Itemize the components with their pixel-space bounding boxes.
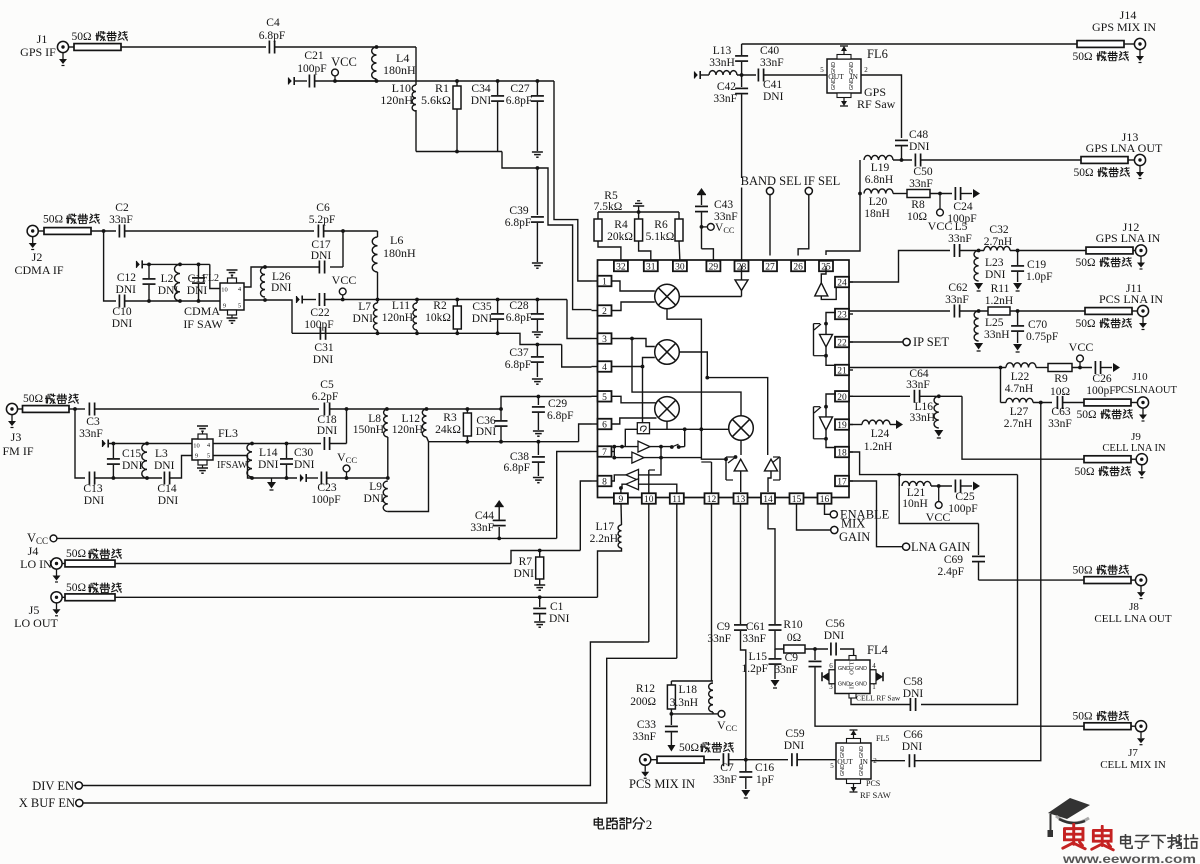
svg-text:FL3: FL3: [218, 426, 238, 440]
capacitor C41 DNI: [758, 69, 783, 104]
wire C14 to FL3 pin9: [170, 456, 192, 479]
capacitor C6 5.2pF: [309, 202, 336, 238]
logo url: [1062, 852, 1196, 864]
svg-text:FM IF: FM IF: [2, 444, 33, 458]
svg-text:C21: C21: [304, 50, 323, 62]
saw filter FL6: [827, 46, 888, 106]
capacitor C56 DNI: [824, 618, 845, 656]
CDMA bottom return rail: [292, 331, 562, 346]
svg-text:J2: J2: [32, 250, 43, 264]
svg-text:6: 6: [829, 662, 833, 670]
microstrip 50ohm J9: [1074, 456, 1131, 478]
svg-text:C5: C5: [320, 379, 334, 391]
svg-text:L23: L23: [985, 257, 1004, 269]
node J2 split: [91, 229, 116, 233]
svg-text:C33: C33: [637, 719, 656, 731]
node C16: [729, 758, 788, 762]
capacitor C13 DNI: [83, 472, 104, 508]
svg-text:IN: IN: [860, 757, 868, 766]
wire R7 rail to pin8: [580, 481, 591, 551]
svg-text:24kΩ: 24kΩ: [435, 424, 461, 436]
svg-text:C44: C44: [475, 510, 494, 522]
svg-text:C16: C16: [755, 762, 774, 774]
resistor R11 1.2nH: [985, 283, 1013, 315]
wire L17 to LO OUT rail: [598, 548, 622, 597]
microstrip 50ohm J1: [71, 31, 127, 50]
wire pin7 node: [611, 445, 638, 460]
svg-text:DNI: DNI: [122, 460, 143, 472]
svg-text:33nF: 33nF: [632, 731, 656, 743]
wire pin2 to M1: [611, 302, 655, 311]
svg-text:33nF: 33nF: [948, 233, 972, 245]
wire B2 out: [614, 447, 701, 460]
pin 27: [763, 261, 777, 273]
VCC tap C22: [325, 273, 378, 301]
svg-text:2.7nH: 2.7nH: [984, 236, 1012, 248]
inductor L6 180nH: [372, 231, 416, 300]
svg-text:6.8pF: 6.8pF: [506, 312, 533, 324]
svg-text:DNI: DNI: [514, 568, 535, 580]
pin 7: [592, 446, 612, 458]
node J3 split: [69, 407, 85, 411]
svg-text:C6: C6: [316, 202, 330, 214]
svg-text:2.2nH: 2.2nH: [590, 533, 618, 545]
capacitor C37 6.8pF: [505, 345, 544, 378]
microstrip 50ohm J11: [1075, 308, 1132, 330]
svg-text:120nH: 120nH: [380, 93, 413, 107]
svg-text:LNA GAIN: LNA GAIN: [911, 540, 970, 554]
capacitor C21 100pF: [297, 50, 326, 88]
svg-text:DNI: DNI: [317, 425, 338, 437]
svg-text:C13: C13: [83, 483, 102, 495]
svg-text:31: 31: [646, 263, 656, 273]
inductor L18 3.3nH: [670, 683, 713, 712]
wire corner to bias rail: [415, 47, 417, 81]
svg-text:C7: C7: [720, 762, 734, 774]
wire pin5 to M3: [611, 396, 656, 403]
svg-text:GPS IF: GPS IF: [20, 45, 56, 59]
inductor L12 120nH: [392, 409, 429, 442]
svg-text:33nF: 33nF: [713, 774, 737, 786]
wire fork to L27: [1001, 368, 1007, 403]
svg-text:33nF: 33nF: [774, 664, 798, 676]
pin 5: [592, 391, 612, 403]
wire cross to S14 group: [707, 378, 767, 455]
svg-text:13: 13: [736, 495, 746, 505]
wire LO IN to R7 rail: [115, 549, 580, 564]
wire M4 to S13 group: [740, 440, 742, 455]
svg-text:J1: J1: [37, 32, 48, 46]
svg-text:10: 10: [644, 495, 654, 505]
svg-text:C39: C39: [509, 205, 528, 217]
svg-text:R4: R4: [614, 219, 628, 231]
wire C3 to C5: [95, 408, 319, 410]
inductor L11 120nH: [382, 300, 417, 334]
svg-text:C62: C62: [948, 282, 967, 294]
wire C63 to J10: [1063, 402, 1084, 404]
label microstrip J3: [23, 393, 79, 405]
svg-text:50Ω: 50Ω: [1073, 167, 1093, 179]
terminal IF SEL: [798, 187, 812, 255]
svg-text:19: 19: [837, 421, 847, 431]
wire C64 node down to J9 row: [962, 396, 1084, 459]
pin 10: [642, 493, 656, 505]
labels J2 CDMA IF: [14, 250, 63, 277]
svg-text:PCS LNA IN: PCS LNA IN: [1099, 292, 1163, 306]
inductor L3 DNI: [142, 444, 175, 479]
svg-text:2: 2: [646, 817, 653, 832]
svg-text:DNI: DNI: [258, 459, 279, 471]
svg-text:DIV EN: DIV EN: [32, 779, 74, 793]
svg-text:CELL LNA IN: CELL LNA IN: [1102, 443, 1166, 454]
svg-text:L25: L25: [985, 317, 1004, 329]
FM bottom rail: [95, 476, 162, 480]
svg-text:4: 4: [602, 363, 607, 373]
svg-text:C9: C9: [785, 652, 799, 664]
svg-text:6.8pF: 6.8pF: [506, 95, 533, 107]
svg-text:J10: J10: [1132, 371, 1148, 383]
svg-text:18: 18: [837, 449, 847, 459]
svg-text:DNI: DNI: [763, 91, 784, 103]
svg-text:VCC: VCC: [331, 55, 357, 69]
capacitor C59 DNI: [784, 728, 805, 766]
capacitor C29 6.8pF: [532, 397, 574, 431]
capacitor C1 DNI: [533, 597, 569, 625]
svg-text:C58: C58: [903, 676, 922, 688]
svg-text:DNI: DNI: [472, 313, 493, 325]
wire C40 node to J14: [742, 43, 1077, 45]
svg-text:FL4: FL4: [867, 643, 889, 657]
svg-text:1pF: 1pF: [756, 774, 774, 786]
svg-text:100pF: 100pF: [304, 319, 333, 331]
svg-text:23: 23: [837, 311, 847, 321]
inductor L14 DNI: [247, 444, 279, 478]
pin 9: [614, 493, 628, 505]
svg-text:DNI: DNI: [903, 688, 924, 700]
resistor R1 5.6k: [421, 81, 461, 152]
svg-text:C30: C30: [294, 447, 313, 459]
wire C43 to pin29: [702, 249, 714, 261]
svg-text:IN: IN: [849, 682, 856, 689]
svg-text:L24: L24: [871, 428, 890, 440]
svg-text:33nF: 33nF: [1048, 418, 1072, 430]
svg-text:C1: C1: [550, 601, 564, 613]
wire pin12 down to L18: [671, 504, 713, 681]
switch group S13: [724, 455, 747, 492]
svg-text:VCC: VCC: [332, 273, 357, 287]
svg-text:33nF: 33nF: [742, 633, 766, 645]
resistor R7 DNI: [514, 551, 544, 581]
ground bar R4 rail: [633, 201, 644, 212]
svg-text:33nF: 33nF: [713, 93, 737, 105]
capacitor C24 100pF: [947, 187, 976, 225]
CDMA bottom rail to FL2 pin9: [125, 299, 220, 303]
microstrip 50ohm J5: [65, 594, 115, 601]
wire C59 to FL5: [798, 760, 837, 770]
wire B4: [619, 484, 677, 493]
arrow out C25: [961, 482, 980, 491]
wire C58 to FL4: [851, 698, 910, 705]
node L9 top: [386, 476, 390, 480]
capacitor C34 DNI: [471, 81, 504, 152]
svg-text:FL2: FL2: [202, 273, 219, 284]
wire pin21 to fork: [849, 366, 1007, 370]
terminal VCC left: [27, 531, 557, 546]
wire pin17 to LNA GAIN: [849, 481, 903, 547]
svg-text:6.8pF: 6.8pF: [505, 359, 532, 371]
capacitor C22 100pF: [304, 293, 333, 331]
ground L23: [974, 283, 983, 291]
svg-text:50Ω: 50Ω: [1072, 51, 1092, 63]
svg-text:CELL LNA OUT: CELL LNA OUT: [1094, 613, 1171, 625]
wire top rail to pin 1: [554, 81, 592, 281]
inductor L8 150nH: [353, 409, 388, 478]
svg-text:C59: C59: [785, 728, 804, 740]
capacitor C3 33nF: [79, 403, 103, 441]
svg-text:DNI: DNI: [311, 250, 332, 262]
capacitor C14 DNI: [157, 472, 178, 508]
wire C18 to C5 vert: [330, 443, 347, 445]
svg-text:2: 2: [602, 307, 607, 317]
svg-text:120nH: 120nH: [392, 424, 423, 436]
capacitor C5 6.2pF: [312, 379, 339, 416]
svg-text:OUT: OUT: [828, 72, 844, 81]
ground C38: [533, 478, 544, 483]
inductor L10 120nH: [380, 81, 416, 111]
wire J1 to C4: [121, 46, 266, 48]
pin 17: [835, 476, 853, 488]
capacitor C15 DNI: [107, 444, 143, 479]
inductor L7 DNI: [353, 300, 378, 331]
capacitor C39 6.8pF: [505, 166, 544, 262]
wire to pin4: [562, 345, 592, 368]
ground C39: [532, 263, 543, 268]
svg-text:IP SET: IP SET: [913, 335, 949, 349]
capacitor C23 100pF: [311, 472, 340, 507]
svg-text:11: 11: [672, 495, 681, 505]
wire to C39 node: [502, 152, 592, 310]
wire pin6 to M3: [611, 418, 657, 424]
microstrip 50ohm J3: [23, 406, 70, 413]
node C48/C50: [893, 158, 912, 162]
pin 28: [735, 261, 749, 273]
node C40/C42: [737, 73, 756, 77]
svg-text:C3: C3: [86, 416, 100, 428]
inductor L26 DNI: [261, 267, 292, 297]
label microstrip J5: [66, 582, 122, 594]
svg-text:IF SEL: IF SEL: [804, 174, 840, 188]
inductor L2 DNI: [158, 264, 180, 301]
wire rail up to pin5: [501, 395, 592, 409]
wire L7 bottom: [377, 330, 379, 333]
svg-text:50Ω: 50Ω: [43, 214, 63, 226]
inductor L25 33nH: [974, 311, 1009, 341]
wire LO tap down: [684, 429, 686, 446]
capacitor C66 DNI: [902, 729, 923, 767]
svg-text:6.8pF: 6.8pF: [505, 217, 532, 229]
inductor C32 2.7nH: [984, 224, 1012, 251]
svg-text:GPS LNA IN: GPS LNA IN: [1096, 231, 1161, 245]
svg-text:10Ω: 10Ω: [1050, 386, 1070, 398]
pin 16: [818, 493, 832, 505]
svg-text:10Ω: 10Ω: [907, 211, 927, 223]
ground C16: [741, 778, 750, 798]
svg-text:100pF: 100pF: [311, 494, 340, 506]
wire FL3 pin5 to bottom rail: [213, 456, 297, 480]
inductor L4 180nH: [372, 47, 416, 79]
svg-text:L27: L27: [1010, 406, 1029, 418]
svg-text:C28: C28: [509, 300, 528, 312]
IC body U1: [598, 260, 850, 498]
logo graduation cap: [1048, 798, 1091, 837]
svg-text:10kΩ: 10kΩ: [425, 312, 451, 324]
resistor R12 200ohm: [630, 681, 675, 714]
node C5: [330, 407, 348, 411]
labels CDMA IF SAW: [183, 304, 223, 331]
svg-text:27: 27: [765, 263, 775, 273]
svg-text:C2: C2: [115, 202, 129, 214]
capacitor C63 33nF: [1048, 396, 1072, 430]
svg-text:9: 9: [195, 453, 198, 460]
pin 22: [835, 337, 853, 349]
capacitor C18 DNI: [317, 414, 338, 450]
connector J12 GPS LNA IN: [1096, 220, 1161, 269]
pin 6: [592, 419, 612, 431]
wire L21 rail to C58 riser: [921, 475, 1018, 705]
svg-text:L15: L15: [748, 651, 767, 663]
wire C42 to pin 28: [741, 95, 743, 262]
connector J7 CELL MIX IN: [1100, 721, 1166, 771]
svg-text:5.2pF: 5.2pF: [309, 214, 336, 226]
svg-text:C22: C22: [310, 307, 329, 319]
svg-text:50Ω: 50Ω: [1072, 711, 1092, 723]
svg-text:180nH: 180nH: [383, 246, 416, 260]
capacitor C62 33nF: [945, 282, 969, 318]
pin 3: [592, 333, 612, 345]
pin 11: [670, 493, 684, 505]
svg-text:GPS MIX IN: GPS MIX IN: [1092, 20, 1156, 34]
svg-text:DNI: DNI: [476, 426, 497, 438]
VCC tap C21: [315, 55, 376, 83]
svg-text:DNI: DNI: [313, 354, 334, 366]
svg-text:50Ω: 50Ω: [71, 31, 91, 43]
pin 30: [673, 261, 687, 273]
inductor L20 18nH: [864, 189, 893, 220]
buffer A25 to pin24: [815, 266, 836, 299]
wire pin24 riser: [849, 251, 951, 283]
capacitor C33 33nF: [632, 712, 678, 743]
svg-text:0Ω: 0Ω: [787, 632, 801, 644]
connector J2 CDMA IF: [27, 214, 63, 250]
svg-text:R3: R3: [443, 412, 457, 424]
svg-text:4.7nH: 4.7nH: [1005, 383, 1033, 395]
wire FL3 pin4 rail: [213, 442, 321, 446]
wire CDMA rail to pin3: [567, 300, 592, 339]
wire C56 to FL4 top: [840, 649, 854, 656]
svg-text:C32: C32: [989, 224, 1008, 236]
wire C17 to FL2 pin4: [244, 265, 319, 287]
svg-text:L22: L22: [1011, 371, 1030, 383]
svg-text:L13: L13: [713, 45, 732, 57]
svg-text:C23: C23: [317, 482, 336, 494]
svg-text:L18: L18: [678, 684, 697, 696]
pin 31: [644, 261, 658, 273]
capacitor C28 6.8pF: [506, 300, 544, 332]
svg-text:DNI: DNI: [909, 141, 930, 153]
FM top rail: [347, 407, 503, 411]
saw filter FL3 IFSAW: [192, 426, 238, 473]
capacitor C7 33nF: [704, 753, 737, 786]
svg-text:6.8pF: 6.8pF: [259, 30, 286, 42]
CDMA mid rail: [376, 298, 567, 302]
wire top rail to FL2 pin10: [210, 264, 220, 288]
svg-text:C19: C19: [1027, 259, 1046, 271]
label IFSAW: [217, 460, 248, 471]
label PCS RF SAW: [860, 779, 891, 800]
stub C23 row: [301, 474, 319, 482]
svg-text:DNI: DNI: [784, 740, 805, 752]
ground C1: [534, 622, 545, 627]
pin 21: [835, 365, 853, 377]
wire J2 down to CDMA bottom rail: [104, 231, 116, 301]
capacitor C16 1pF: [739, 760, 774, 786]
wire pin3 branch down: [632, 339, 741, 416]
svg-text:R6: R6: [654, 219, 668, 231]
capacitor C26 100pF: [1086, 361, 1115, 397]
svg-text:C27: C27: [510, 83, 529, 95]
capacitor C30 DNI: [280, 444, 315, 479]
ground C29: [533, 431, 544, 436]
microstrip 50ohm J10: [1076, 399, 1132, 421]
inductor L9 DNI: [364, 481, 388, 512]
svg-text:RF Saw: RF Saw: [857, 97, 896, 111]
wire R6 to pin30: [678, 241, 681, 261]
svg-text:X BUF EN: X BUF EN: [19, 796, 75, 810]
svg-text:33nF: 33nF: [760, 57, 784, 69]
inductor L19 6.8nH: [864, 155, 893, 186]
buffer B2: [632, 452, 644, 463]
svg-text:33nH: 33nH: [984, 329, 1010, 341]
wire pin10 interior: [649, 470, 655, 493]
svg-text:MIX: MIX: [841, 517, 865, 531]
svg-text:DNI: DNI: [549, 613, 570, 625]
svg-text:5: 5: [830, 762, 834, 770]
svg-text:R9: R9: [1054, 373, 1068, 385]
divider box wires: [625, 429, 667, 446]
wire C41 to FL6: [764, 66, 868, 75]
pin 25: [819, 261, 833, 273]
svg-text:6.8nH: 6.8nH: [865, 174, 893, 186]
svg-text:J5: J5: [29, 603, 40, 617]
svg-text:C66: C66: [903, 729, 922, 741]
pin 12: [705, 493, 719, 505]
microstrip 50ohm J8: [1072, 565, 1131, 584]
wire C61 to R10: [775, 631, 784, 649]
stub C15 mid rail: [103, 440, 193, 448]
pin 24: [835, 277, 853, 289]
svg-text:GAIN: GAIN: [839, 530, 870, 544]
svg-text:C70: C70: [1028, 319, 1047, 331]
buffer B1: [638, 441, 650, 452]
wire C9 to PCS MIX junction: [741, 631, 746, 760]
inductor L22 4.7nH: [1005, 363, 1036, 395]
svg-text:5: 5: [207, 453, 210, 460]
svg-text:4: 4: [872, 662, 876, 670]
svg-text:L11: L11: [392, 300, 410, 312]
microstrip 50ohm J2: [44, 228, 91, 235]
svg-text:DNI: DNI: [158, 495, 179, 507]
pin 14: [761, 493, 775, 505]
